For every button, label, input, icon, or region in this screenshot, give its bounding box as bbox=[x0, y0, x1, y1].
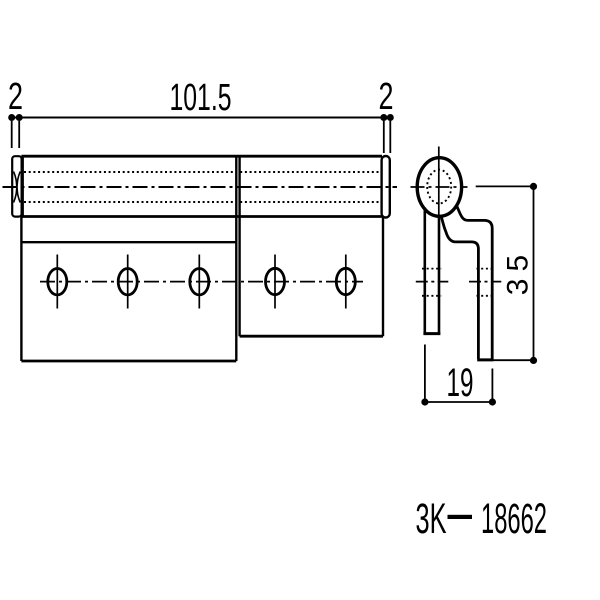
hole 2 center line vertical bbox=[127, 255, 129, 309]
top dimension line 101.5 bbox=[11, 117, 391, 119]
svg-text:101.5: 101.5 bbox=[170, 77, 232, 119]
dim 19 extension line left bbox=[424, 345, 426, 403]
dimension dot left outer bbox=[8, 114, 15, 121]
hinge pin end cap bbox=[12, 156, 21, 216]
barrel right end cap bbox=[382, 156, 390, 218]
svg-text:3K: 3K bbox=[416, 496, 447, 543]
side view knuckle pin hole dotted bbox=[427, 170, 451, 204]
extension line left inner bbox=[18, 121, 20, 148]
left leg hidden line upper bbox=[422, 268, 441, 270]
side view knuckle outer ellipse bbox=[417, 158, 461, 217]
svg-text:18662: 18662 bbox=[481, 496, 547, 543]
right leaf right edge bbox=[382, 217, 384, 337]
dim 35 vertical line bbox=[533, 186, 535, 360]
barrel left end line bbox=[22, 156, 24, 216]
dim 35 dot bottom bbox=[530, 357, 537, 364]
right leg hidden line lower bbox=[477, 295, 494, 297]
left leg hidden line lower bbox=[422, 295, 441, 297]
hole center line horizontal bbox=[40, 281, 363, 283]
knuckle divider line left bbox=[235, 156, 237, 361]
knuckle divider line right bbox=[238, 156, 240, 336]
part number dash bbox=[448, 515, 473, 519]
dim 35 bottom reference line bbox=[494, 359, 534, 361]
svg-text:19: 19 bbox=[447, 361, 474, 405]
side view left leg bottom bbox=[423, 332, 440, 335]
extension line right outer bbox=[389, 121, 391, 153]
hole 5 center line vertical bbox=[345, 255, 347, 309]
hole 2 bbox=[118, 269, 137, 295]
dim 19 dot left bbox=[421, 398, 428, 405]
left leaf fold line bbox=[21, 241, 236, 243]
side view left leg inner edge bbox=[438, 216, 441, 334]
barrel top line bbox=[21, 155, 382, 158]
svg-text:2: 2 bbox=[8, 76, 23, 118]
hole 3 center line vertical bbox=[198, 255, 200, 309]
hole 4 bbox=[266, 268, 285, 294]
hole 4 center line vertical bbox=[274, 255, 276, 309]
pin waist arc left bbox=[14, 172, 17, 203]
side view flag leg bottom bbox=[477, 358, 493, 361]
barrel center line bbox=[3, 186, 398, 188]
extension line left outer bbox=[11, 121, 13, 148]
hole 5 bbox=[336, 268, 355, 294]
right leg center line cross bbox=[469, 281, 501, 283]
side view horizontal center line bbox=[411, 186, 468, 188]
dim 19 extension line right bbox=[491, 369, 493, 403]
barrel hidden line lower bbox=[24, 201, 380, 203]
svg-text:35: 35 bbox=[502, 248, 535, 295]
hole 1 center line vertical bbox=[56, 255, 58, 309]
dim 35 top reference line bbox=[476, 185, 534, 187]
dimension dot left inner bbox=[16, 114, 23, 121]
pin waist arc right bbox=[17, 172, 20, 203]
right leaf bottom edge bbox=[240, 335, 383, 338]
hole 1 bbox=[48, 269, 67, 295]
left leg center line cross bbox=[416, 281, 449, 283]
dim 19 dot right bbox=[489, 398, 496, 405]
side view flag leg outer edge bbox=[457, 206, 492, 360]
dim 19 dimension line bbox=[425, 401, 493, 403]
left leaf left edge bbox=[20, 217, 22, 362]
side view flag leg inner edge bbox=[441, 217, 478, 360]
dimension dot right outer bbox=[387, 114, 394, 121]
right leg hidden line upper bbox=[477, 268, 494, 270]
side view vertical center line bbox=[438, 147, 440, 218]
dim 35 dot top bbox=[530, 183, 537, 190]
barrel hidden line upper bbox=[24, 171, 380, 173]
hole 3 bbox=[190, 269, 209, 295]
barrel bottom line bbox=[21, 215, 382, 218]
left leaf bottom edge bbox=[21, 360, 236, 363]
dimension dot right inner bbox=[380, 114, 387, 121]
extension line right inner bbox=[383, 121, 385, 153]
side view left leg outer edge bbox=[423, 208, 426, 334]
svg-text:2: 2 bbox=[379, 76, 394, 118]
